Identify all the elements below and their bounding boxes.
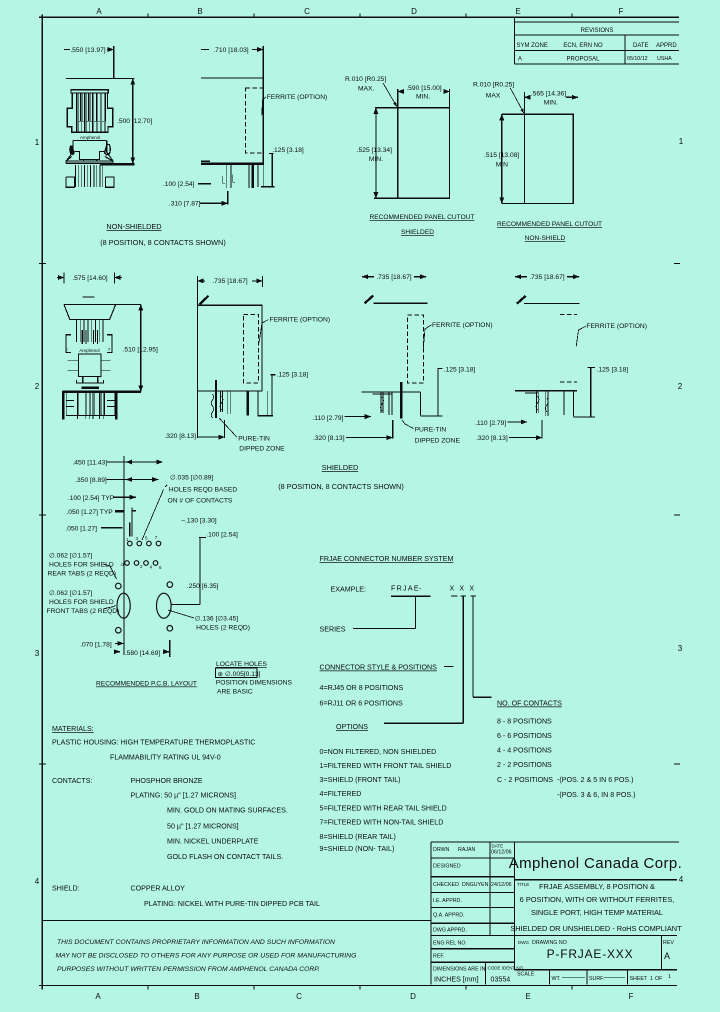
svg-text:MIN. GOLD ON MATING SURFACES.: MIN. GOLD ON MATING SURFACES. — [167, 807, 288, 815]
centerline vertical — [123, 456, 125, 655]
svg-text:.735 [18.67]: .735 [18.67] — [376, 274, 411, 281]
svg-text:DIMENSIONS ARE IN: DIMENSIONS ARE IN — [433, 967, 486, 973]
contacts — [77, 319, 104, 344]
zone letters bottom — [95, 992, 633, 1001]
svg-text:CHECKED: CHECKED — [433, 882, 459, 888]
svg-text:⊕ ∅.005[0.13]: ⊕ ∅.005[0.13] — [218, 671, 261, 678]
svg-text:RAJAN: RAJAN — [458, 847, 476, 853]
zone tick marks left — [39, 264, 46, 765]
svg-text:R.010 [R0.25]: R.010 [R0.25] — [473, 82, 514, 89]
svg-text:4: 4 — [35, 877, 40, 886]
svg-text:REV: REV — [663, 940, 674, 946]
svg-text:C: C — [304, 7, 310, 16]
svg-text:PLASTIC HOUSING: HIGH TEMPERAT: PLASTIC HOUSING: HIGH TEMPERATURE THERMO… — [52, 739, 255, 747]
svg-text:7: 7 — [155, 535, 158, 540]
svg-text:.125 [3.18]: .125 [3.18] — [277, 372, 309, 379]
svg-text:DATE: DATE — [633, 43, 649, 49]
top line — [524, 303, 579, 305]
svg-text:SHIELD:: SHIELD: — [52, 885, 80, 893]
latch diagonal — [517, 296, 526, 304]
lower shell with latch opening — [66, 141, 113, 164]
svg-text:B: B — [194, 992, 199, 1001]
svg-text:–.130 [3.30]: –.130 [3.30] — [181, 518, 216, 525]
svg-text:7=FILTERED WITH NON-TAIL SHIEL: 7=FILTERED WITH NON-TAIL SHIELD — [320, 819, 444, 827]
svg-text:05/10/12: 05/10/12 — [627, 56, 648, 62]
svg-text:.110 [2.79]: .110 [2.79] — [475, 420, 506, 427]
svg-text:.125 [3.18]: .125 [3.18] — [597, 367, 629, 374]
svg-text:.510 [12.95]: .510 [12.95] — [123, 347, 158, 354]
svg-text:6: 6 — [159, 565, 162, 570]
svg-text:.125 [3.18]: .125 [3.18] — [444, 367, 476, 374]
legs below — [211, 380, 267, 418]
svg-text:SHIELDED OR UNSHIELDED - RoHS: SHIELDED OR UNSHIELDED - RoHS COMPLIANT — [510, 924, 682, 933]
svg-text:6=RJ11 OR 6 POSITIONS: 6=RJ11 OR 6 POSITIONS — [320, 700, 404, 708]
svg-text:.575 [14.60]: .575 [14.60] — [72, 275, 107, 282]
shield tab small holes — [116, 583, 122, 589]
svg-text:-(POS. 2 & 5 IN 6 POS.): -(POS. 2 & 5 IN 6 POS.) — [557, 776, 633, 784]
svg-text:PLATING: 50 µ" [1.27 MICRONS]: PLATING: 50 µ" [1.27 MICRONS] — [131, 792, 236, 800]
svg-text:.500 [12.70]: .500 [12.70] — [117, 118, 152, 125]
svg-text:RECOMMENDED P.C.B. LAYOUT: RECOMMENDED P.C.B. LAYOUT — [96, 681, 197, 688]
svg-text:1: 1 — [668, 974, 671, 980]
svg-text:2 - 2 POSITIONS: 2 - 2 POSITIONS — [497, 761, 552, 769]
svg-text:DWG APPRD.: DWG APPRD. — [433, 928, 467, 934]
svg-text:MIN.: MIN. — [416, 94, 430, 101]
svg-text:.100 [2.54]: .100 [2.54] — [206, 531, 238, 538]
cutout rectangle non-shield — [524, 114, 573, 203]
svg-text:GOLD FLASH ON CONTACT TAILS.: GOLD FLASH ON CONTACT TAILS. — [167, 853, 283, 861]
svg-text:(8 POSITION, 8 CONTACTS SHOWN): (8 POSITION, 8 CONTACTS SHOWN) — [100, 238, 226, 247]
zone tick marks top — [148, 14, 572, 18]
svg-text:HOLES REQD BASED: HOLES REQD BASED — [169, 486, 238, 493]
svg-text:03554: 03554 — [491, 976, 511, 984]
options list — [320, 723, 452, 853]
cutout rectangle shielded — [398, 108, 450, 199]
svg-text:2: 2 — [678, 382, 683, 391]
svg-text:SURF.: SURF. — [589, 976, 604, 982]
svg-text:DESIGNED: DESIGNED — [433, 864, 461, 870]
svg-text:MIN.: MIN. — [544, 100, 558, 107]
legs — [536, 391, 574, 416]
no. of contacts list — [497, 700, 635, 800]
svg-text:A: A — [518, 57, 522, 63]
svg-text:1: 1 — [650, 976, 653, 982]
options callout line (middle X) — [384, 596, 463, 723]
svg-text:.735 [18.67]: .735 [18.67] — [529, 274, 564, 281]
svg-text:F: F — [619, 7, 624, 16]
svg-text:SHIELDED: SHIELDED — [401, 229, 434, 236]
svg-text:I.E. APPRD.: I.E. APPRD. — [433, 898, 462, 904]
dim .500 vertical — [117, 79, 152, 164]
contacts 8x — [74, 93, 106, 133]
dim .510 — [140, 304, 142, 391]
svg-text:POSITION DIMENSIONS: POSITION DIMENSIONS — [216, 680, 293, 687]
svg-text:.320 [8.13]: .320 [8.13] — [164, 433, 196, 440]
dim .550 top — [64, 46, 114, 79]
latch hooks dark — [69, 145, 75, 155]
svg-text:6 - 6 POSITIONS: 6 - 6 POSITIONS — [497, 732, 552, 740]
pin legs — [76, 165, 103, 187]
svg-text:∅.062 [∅1.57]: ∅.062 [∅1.57] — [49, 553, 92, 560]
svg-text:SYM ZONE: SYM ZONE — [517, 43, 548, 49]
svg-text:FERRITE (OPTION): FERRITE (OPTION) — [432, 322, 493, 329]
svg-text:DNGUYEN: DNGUYEN — [462, 882, 489, 888]
ferrite dashed box — [407, 315, 423, 383]
svg-text:4=RJ45 OR 8 POSITIONS: 4=RJ45 OR 8 POSITIONS — [320, 684, 404, 692]
seating line — [361, 391, 420, 393]
example line — [331, 585, 480, 594]
svg-text:ECN, ERN NO: ECN, ERN NO — [563, 43, 603, 49]
svg-text:PROPOSAL: PROPOSAL — [566, 57, 600, 63]
svg-text:.580 [14.69]: .580 [14.69] — [125, 650, 160, 657]
svg-text:1=FILTERED WITH FRONT TAIL SHI: 1=FILTERED WITH FRONT TAIL SHIELD — [320, 762, 452, 770]
ferrite dashed box — [243, 314, 258, 383]
svg-text:DIPPED ZONE: DIPPED ZONE — [415, 438, 461, 445]
ferrite dashed box — [246, 88, 328, 153]
svg-text:P-FRJAE-XXX: P-FRJAE-XXX — [547, 947, 634, 961]
svg-text:DRAWING NO: DRAWING NO — [532, 940, 567, 946]
shield body rect — [197, 305, 262, 391]
dim .125 bracket — [261, 147, 304, 187]
svg-text:2: 2 — [140, 564, 143, 569]
svg-text:.250 [6.35]: .250 [6.35] — [187, 583, 219, 590]
svg-text:∅.136 [∅3.45]: ∅.136 [∅3.45] — [195, 616, 238, 623]
svg-text:RECOMMENDED PANEL CUTOUT: RECOMMENDED PANEL CUTOUT — [497, 221, 602, 228]
svg-text:A: A — [95, 992, 101, 1001]
revisions table — [515, 17, 680, 64]
title block frame — [431, 842, 679, 984]
svg-text:8 - 8 POSITIONS: 8 - 8 POSITIONS — [497, 718, 552, 726]
svg-text:5=FILTERED WITH REAR TAIL SHIE: 5=FILTERED WITH REAR TAIL SHIELD — [320, 805, 447, 813]
ferrite dashes — [560, 314, 577, 316]
svg-text:.565 [14.36]: .565 [14.36] — [531, 91, 566, 98]
svg-text:DIPPED ZONE: DIPPED ZONE — [239, 446, 285, 453]
zone letters top — [96, 7, 623, 16]
seating plane line — [66, 162, 113, 164]
svg-text:7: 7 — [108, 347, 111, 352]
zone numbers right — [678, 137, 684, 884]
top line — [374, 302, 428, 304]
svg-text:1: 1 — [35, 138, 40, 147]
svg-text:E: E — [525, 992, 530, 1001]
svg-text:.590 [15.00]: .590 [15.00] — [406, 85, 441, 92]
big oval holes — [117, 593, 130, 618]
svg-text:MIN. NICKEL UNDERPLATE: MIN. NICKEL UNDERPLATE — [167, 838, 259, 846]
top extension line — [66, 78, 135, 80]
drawing number box — [518, 940, 674, 961]
svg-text:.320 [8.13]: .320 [8.13] — [476, 435, 508, 442]
svg-text:DWG: DWG — [518, 940, 529, 945]
svg-text:REF.: REF. — [433, 954, 444, 960]
svg-text:TITLE: TITLE — [517, 882, 529, 887]
seam dash — [83, 296, 95, 298]
svg-text:COPPER ALLOY: COPPER ALLOY — [131, 885, 186, 893]
svg-text:WT.: WT. — [552, 976, 561, 982]
svg-text:4 - 4 POSITIONS: 4 - 4 POSITIONS — [497, 747, 552, 755]
svg-text:8=SHIELD (REAR TAIL): 8=SHIELD (REAR TAIL) — [320, 833, 396, 841]
svg-text:DRWN: DRWN — [433, 847, 450, 853]
svg-text:3: 3 — [136, 536, 139, 541]
svg-text:FLAMMABILITY RATING UL 94V-0: FLAMMABILITY RATING UL 94V-0 — [110, 754, 221, 762]
svg-text:THIS DOCUMENT CONTAINS PROPRIE: THIS DOCUMENT CONTAINS PROPRIETARY INFOR… — [57, 939, 335, 946]
svg-text:D: D — [411, 7, 417, 16]
svg-text:R.010 [R0.25]: R.010 [R0.25] — [345, 76, 386, 83]
svg-text:DATE: DATE — [492, 844, 504, 849]
svg-text:A: A — [664, 951, 670, 961]
svg-text:INCHES [mm]: INCHES [mm] — [434, 976, 479, 984]
svg-text:3: 3 — [35, 649, 40, 658]
svg-text:SHEET: SHEET — [630, 976, 648, 982]
svg-text:50 µ" [1.27 MICRONS]: 50 µ" [1.27 MICRONS] — [167, 823, 239, 831]
svg-text:NO. OF CONTACTS: NO. OF CONTACTS — [497, 700, 562, 708]
svg-text:FERRITE (OPTION): FERRITE (OPTION) — [586, 323, 647, 330]
svg-text:SERIES: SERIES — [320, 626, 346, 634]
svg-text:.0: .0 — [120, 562, 124, 567]
svg-text:PHOSPHOR BRONZE: PHOSPHOR BRONZE — [131, 777, 203, 785]
svg-text:PURE-TIN: PURE-TIN — [238, 436, 270, 443]
dim .710 top — [201, 46, 263, 78]
svg-text:RECOMMENDED PANEL CUTOUT: RECOMMENDED PANEL CUTOUT — [369, 214, 474, 221]
svg-text:ARE BASIC: ARE BASIC — [217, 689, 253, 696]
side view body — [201, 78, 264, 164]
zone numbers left — [35, 138, 40, 886]
svg-text:PURPOSES WITHOUT WRITTEN PERMI: PURPOSES WITHOUT WRITTEN PERMISSION FROM… — [57, 966, 320, 973]
svg-text:6 POSITION, WITH OR WITHOUT FE: 6 POSITION, WITH OR WITHOUT FERRITES, — [520, 895, 675, 904]
no. of contacts callout line (last X) — [473, 596, 492, 697]
side view legs — [223, 165, 263, 188]
svg-text:.710 [18.03]: .710 [18.03] — [213, 47, 248, 54]
locate holes note — [216, 661, 293, 696]
svg-text:SCALE: SCALE — [517, 972, 535, 978]
proprietary note separator line — [42, 920, 431, 922]
svg-text:.525 [13.34]: .525 [13.34] — [357, 147, 392, 154]
svg-text:.450 [11.43]: .450 [11.43] — [72, 460, 107, 467]
svg-text:4: 4 — [150, 565, 153, 570]
svg-text:.735 [18.67]: .735 [18.67] — [212, 278, 247, 285]
svg-text:MAX: MAX — [486, 93, 501, 100]
side ground tabs — [66, 335, 71, 353]
svg-text:-(POS. 3 & 6, IN 8 POS.): -(POS. 3 & 6, IN 8 POS.) — [557, 791, 635, 799]
svg-text:4: 4 — [679, 875, 684, 884]
svg-text:XXX: XXX — [450, 585, 480, 593]
svg-text:NON-SHIELD: NON-SHIELD — [525, 235, 566, 242]
svg-text:HOLES FOR SHIELD: HOLES FOR SHIELD — [49, 562, 114, 569]
svg-text:.110 [2.79]: .110 [2.79] — [312, 415, 343, 422]
svg-text:EXAMPLE:: EXAMPLE: — [331, 586, 367, 594]
svg-text:9=SHIELD (NON- TAIL): 9=SHIELD (NON- TAIL) — [320, 845, 395, 853]
svg-text:MATERIALS:: MATERIALS: — [52, 725, 94, 733]
svg-text:.050 [1.27] TYP: .050 [1.27] TYP — [66, 509, 113, 516]
svg-text:PURE-TIN: PURE-TIN — [415, 427, 447, 434]
X digit underline ticks — [451, 595, 476, 597]
svg-text:.070 [1.78]: .070 [1.78] — [80, 642, 112, 649]
connector style & positions — [320, 664, 454, 708]
svg-text:C - 2 POSITIONS: C - 2 POSITIONS — [497, 776, 553, 784]
svg-text:.100 [2.54] TYP: .100 [2.54] TYP — [68, 495, 115, 502]
svg-text:0=NON FILTERED, NON SHIELDED: 0=NON FILTERED, NON SHIELDED — [320, 748, 437, 756]
latch tab diagonal — [200, 296, 209, 305]
series callout — [320, 596, 431, 633]
svg-text:5: 5 — [145, 536, 148, 541]
svg-text:D: D — [410, 992, 416, 1001]
svg-text:Amphenol: Amphenol — [79, 348, 99, 353]
proprietary note — [56, 939, 357, 973]
svg-text:OPTIONS: OPTIONS — [336, 723, 368, 731]
svg-text:FERRITE (OPTION): FERRITE (OPTION) — [267, 94, 328, 101]
seating line — [515, 390, 577, 392]
svg-text:APPRD: APPRD — [656, 43, 677, 49]
svg-text:c: c — [66, 347, 69, 352]
svg-text:SHIELDED: SHIELDED — [322, 463, 359, 472]
svg-text:-: - — [419, 585, 422, 593]
contact holes row B — [125, 561, 158, 566]
svg-text:1: 1 — [679, 137, 684, 146]
svg-text:HOLES FOR SHIELD: HOLES FOR SHIELD — [49, 599, 114, 606]
svg-text:USHA: USHA — [657, 56, 672, 62]
svg-text:E: E — [515, 7, 520, 16]
svg-text:∅.035 [∅0.89]: ∅.035 [∅0.89] — [170, 475, 213, 482]
drawing title — [510, 882, 682, 933]
svg-text:.310 [7.87]: .310 [7.87] — [169, 201, 201, 208]
front view body — [67, 90, 113, 133]
svg-text:∅.062 [∅1.57]: ∅.062 [∅1.57] — [49, 590, 92, 597]
svg-text:.100 [2.54]: .100 [2.54] — [163, 181, 195, 188]
svg-text:OF: OF — [655, 976, 663, 982]
middle module box — [78, 354, 101, 377]
svg-text:CONNECTOR STYLE & POSITIONS: CONNECTOR STYLE & POSITIONS — [320, 664, 438, 672]
legs and shield tabs below — [63, 391, 116, 420]
zone tick marks bottom — [148, 986, 572, 990]
svg-text:PLATING: NICKEL WITH PURE-TIN: PLATING: NICKEL WITH PURE-TIN DIPPED PCB… — [144, 900, 320, 908]
svg-text:FRJAE ASSEMBLY, 8 POSITION &: FRJAE ASSEMBLY, 8 POSITION & — [539, 882, 655, 891]
svg-text:3: 3 — [678, 644, 683, 653]
svg-text:CODE IDENT NO: CODE IDENT NO — [488, 966, 524, 971]
svg-text:FRJAE: FRJAE — [391, 585, 420, 593]
svg-text:HOLES (2 REQD): HOLES (2 REQD) — [196, 625, 250, 632]
svg-text:C: C — [296, 992, 302, 1001]
svg-text:Q.A. APPRD.: Q.A. APPRD. — [433, 913, 465, 919]
svg-text:ENG REL NO: ENG REL NO — [433, 941, 465, 947]
svg-text:.550 [13.97]: .550 [13.97] — [70, 47, 105, 54]
side mounting posts — [66, 177, 114, 187]
svg-text:NON-SHIELDED: NON-SHIELDED — [106, 222, 161, 231]
svg-text:2: 2 — [35, 382, 40, 391]
svg-text:3=SHIELD (FRONT TAIL): 3=SHIELD (FRONT TAIL) — [320, 776, 401, 784]
svg-text:.320 [8.13]: .320 [8.13] — [313, 435, 345, 442]
contact holes row A — [128, 541, 161, 546]
svg-text:Amphenol Canada Corp.: Amphenol Canada Corp. — [509, 855, 683, 872]
latch diagonal — [365, 296, 374, 304]
svg-text:MAX.: MAX. — [358, 86, 374, 93]
svg-text:.350 [8.89]: .350 [8.89] — [75, 477, 107, 484]
zone tick marks right — [674, 264, 680, 765]
svg-text:REVISIONS: REVISIONS — [581, 28, 614, 34]
svg-text:MAY NOT BE DISCLOSED TO OTHERS: MAY NOT BE DISCLOSED TO OTHERS FOR ANY P… — [56, 953, 357, 960]
svg-text:FRONT TABS (2 REQD): FRONT TABS (2 REQD) — [47, 608, 120, 615]
svg-text:REAR TABS (2 REQD): REAR TABS (2 REQD) — [48, 571, 117, 578]
shield body top — [64, 303, 141, 305]
svg-text:F: F — [629, 992, 634, 1001]
svg-text:B: B — [197, 7, 202, 16]
legs — [381, 382, 421, 419]
svg-text:24/12/06: 24/12/06 — [491, 882, 512, 888]
svg-text:(8 POSITION, 8 CONTACTS SHOWN): (8 POSITION, 8 CONTACTS SHOWN) — [278, 482, 404, 491]
svg-text:ON # OF CONTACTS: ON # OF CONTACTS — [168, 498, 233, 505]
svg-text:LOCATE HOLES: LOCATE HOLES — [216, 661, 267, 668]
right bracket vertical — [199, 538, 201, 605]
svg-text:SINGLE PORT, HIGH TEMP MATERIA: SINGLE PORT, HIGH TEMP MATERIAL — [531, 908, 663, 917]
svg-text:FERRITE (OPTION): FERRITE (OPTION) — [270, 317, 331, 324]
svg-text:Amphenol: Amphenol — [80, 135, 100, 140]
title block left column texts — [433, 844, 671, 984]
materials section — [52, 725, 320, 908]
seating plane — [63, 390, 141, 392]
svg-text:.125 [3.18]: .125 [3.18] — [272, 147, 304, 154]
svg-text:4=FILTERED: 4=FILTERED — [320, 790, 362, 798]
svg-text:A: A — [96, 7, 102, 16]
svg-text:.050 [1.27]: .050 [1.27] — [65, 525, 97, 532]
svg-text:FRJAE CONNECTOR NUMBER SYSTEM: FRJAE CONNECTOR NUMBER SYSTEM — [320, 555, 454, 563]
svg-text:CONTACTS:: CONTACTS: — [52, 777, 92, 785]
